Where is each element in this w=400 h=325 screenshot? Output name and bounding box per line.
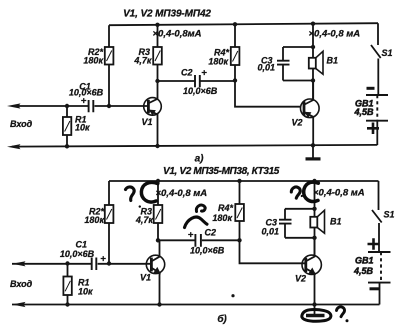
svg-text:10,0×6В: 10,0×6В <box>190 245 225 255</box>
svg-text:V2: V2 <box>291 118 302 128</box>
svg-text:0,01: 0,01 <box>257 63 275 73</box>
svg-text:10,0×6В: 10,0×6В <box>60 249 95 259</box>
svg-text:V1: V1 <box>140 273 151 283</box>
svg-text:R4*: R4* <box>218 203 234 213</box>
svg-text:180к: 180к <box>84 215 104 225</box>
svg-text:×0,4-0,8 мА: ×0,4-0,8 мА <box>313 187 365 198</box>
svg-text:4,5В: 4,5В <box>353 107 374 117</box>
svg-text:C1: C1 <box>76 240 88 250</box>
svg-text:C2: C2 <box>181 68 193 78</box>
svg-text:а): а) <box>195 154 204 165</box>
svg-text:×0,4-0,8мА: ×0,4-0,8мА <box>153 29 202 40</box>
svg-text:4,7к: 4,7к <box>135 215 154 225</box>
svg-text:×0,4-0,8 мА: ×0,4-0,8 мА <box>309 28 361 39</box>
svg-text:V1, V2 МП35-МП38, КТ315: V1, V2 МП35-МП38, КТ315 <box>163 166 280 177</box>
svg-text:+: + <box>81 95 87 106</box>
svg-text:C2: C2 <box>205 227 217 237</box>
svg-text:S1: S1 <box>382 48 393 58</box>
svg-text:Вход: Вход <box>10 119 33 129</box>
svg-text:180к: 180к <box>212 213 232 223</box>
svg-text:4,7к: 4,7к <box>133 55 152 65</box>
svg-text:10к: 10к <box>78 287 93 297</box>
svg-text:10,0×6В: 10,0×6В <box>183 86 218 96</box>
svg-text:V2: V2 <box>295 274 306 284</box>
svg-text:Вход: Вход <box>10 279 33 289</box>
svg-text:б): б) <box>217 313 227 325</box>
svg-text:V1: V1 <box>141 117 152 127</box>
svg-text:+: + <box>100 254 106 265</box>
svg-text:180к: 180к <box>83 55 103 65</box>
svg-text:B1: B1 <box>327 56 339 66</box>
svg-text:10к: 10к <box>75 123 90 133</box>
svg-text:V1, V2 МП39-МП42: V1, V2 МП39-МП42 <box>123 9 211 20</box>
svg-text:S1: S1 <box>384 210 395 220</box>
svg-text:180к: 180к <box>208 56 228 66</box>
svg-text:+: + <box>201 68 207 79</box>
svg-text:4,5В: 4,5В <box>353 266 374 276</box>
svg-text:×0,4-0,8 мА: ×0,4-0,8 мА <box>156 188 208 199</box>
svg-text:GB1: GB1 <box>355 255 374 265</box>
svg-text:0,01: 0,01 <box>261 226 279 236</box>
svg-text:+: + <box>188 229 194 240</box>
svg-text:B1: B1 <box>330 216 342 226</box>
